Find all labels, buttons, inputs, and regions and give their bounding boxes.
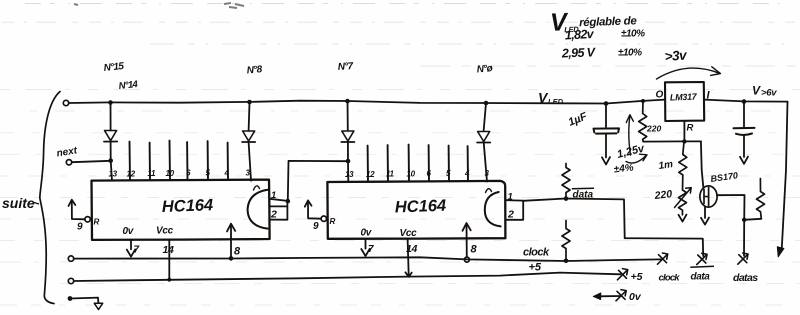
svg-text:HC164: HC164 (395, 197, 447, 217)
wire: U2 pins 1,2 tie (506, 199, 524, 201)
svg-text:2,95 V: 2,95 V (561, 45, 597, 60)
svg-text:14: 14 (163, 244, 175, 256)
terminal: top rail input (63, 100, 68, 105)
svg-text:7: 7 (368, 244, 374, 255)
ground symbol bottom left (94, 303, 102, 309)
wire: U2 top pin stubs (367, 146, 369, 182)
svg-text:>6v: >6v (761, 88, 777, 99)
svg-text:R: R (687, 123, 694, 134)
gate bubble U2 (485, 192, 501, 226)
svg-text:9: 9 (313, 221, 319, 232)
svg-text:0v: 0v (361, 228, 373, 239)
wire: clock rail (74, 257, 661, 261)
transistor Q1 BS170 (700, 186, 717, 207)
svg-text:±10%: ±10% (618, 48, 642, 59)
wire: LM317 adjust pin and bottom rail (683, 121, 685, 141)
svg-text:LM317: LM317 (670, 92, 698, 103)
svg-text:1: 1 (508, 192, 513, 203)
LED D4 (N°0) (477, 103, 490, 181)
svg-text:R: R (94, 218, 100, 227)
svg-text:Vcc: Vcc (400, 228, 418, 239)
label VLED réglable heading (550, 6, 638, 37)
pin 7 ground of U2 (365, 239, 367, 249)
terminal: 0v input with ground (68, 296, 73, 301)
wire: U1 top pin stubs (129, 142, 132, 181)
wire: gate node to R6 (744, 219, 761, 220)
svg-text:4: 4 (224, 169, 230, 178)
wire: Q1 gate lead right and down to data terminal (717, 195, 745, 256)
wire: drain riser to Q1 (701, 141, 703, 187)
node: rail junction dots (108, 99, 645, 106)
IC U1 HC164 body (92, 180, 270, 240)
wire: Q1 source to arrow (704, 206, 706, 218)
svg-text:>3v: >3v (664, 47, 688, 64)
wire: pin13 U1 from LED D1 (111, 161, 112, 181)
svg-text:N°15: N°15 (103, 61, 125, 74)
tick above U1 bubble (254, 186, 260, 190)
svg-text:N°8: N°8 (246, 64, 263, 76)
capacitor C2 output (743, 103, 745, 128)
svg-text:1,82v: 1,82v (564, 27, 595, 43)
svg-text:N°7: N°7 (337, 61, 354, 73)
svg-text:11: 11 (386, 170, 395, 179)
svg-text:±4%: ±4% (613, 162, 634, 175)
svg-text:11: 11 (148, 169, 157, 178)
wire: cascade riser U1 to U2 pin13 line (288, 161, 348, 201)
svg-text:13: 13 (345, 170, 354, 179)
svg-text:1: 1 (271, 190, 276, 201)
svg-text:±10%: ±10% (621, 29, 645, 40)
svg-text:N°14: N°14 (118, 79, 139, 92)
svg-text:12: 12 (366, 170, 375, 179)
svg-text:14: 14 (406, 243, 418, 255)
wire: VLED top rail (69, 100, 665, 104)
svg-text:R: R (330, 217, 336, 226)
resistor R4 1M (679, 142, 687, 186)
svg-text:clock: clock (659, 273, 681, 284)
pin 8 U1 clock arrow (230, 225, 232, 259)
LED D1 (N°15) (104, 103, 117, 161)
IC U2 HC164 body (327, 181, 505, 239)
wire: U1 pins 1,2 tie to cascade node (270, 199, 288, 201)
svg-text:1m: 1m (658, 159, 674, 172)
annotation: >3v curved arrow over LM317 (657, 68, 720, 79)
gate bubble U1 (D shape on right edge) (248, 190, 268, 229)
pin 9 R of U1 (reset, bubble + wire + up arrow) (85, 217, 90, 222)
wire: U2 serial out, right and down to data-bar terminal (523, 199, 703, 257)
wire: +5 rail (74, 273, 621, 281)
annotation: 0v return arrow bottom (600, 295, 622, 297)
svg-text:220: 220 (653, 188, 673, 202)
svg-text:0v: 0v (629, 291, 642, 303)
node: next joins D1 cathode (108, 158, 113, 163)
scan specks top edge (74, 3, 244, 8)
capacitor C1 1uF (605, 104, 607, 127)
resistor R6 (gate stub) (757, 179, 765, 219)
svg-text:13: 13 (109, 170, 118, 179)
svg-text:9: 9 (77, 222, 83, 233)
LED D3 (N°7) (341, 101, 354, 181)
svg-text:2: 2 (507, 209, 514, 221)
terminal: +5 input (68, 278, 73, 283)
svg-text:+5: +5 (529, 262, 542, 274)
terminal: clock input (68, 256, 73, 261)
pin 9 R of U2 (321, 216, 326, 221)
voltage regulator U3 LM317 box (665, 82, 704, 121)
svg-text:LED: LED (548, 97, 564, 106)
resistor R3 220 (adjust top) (639, 101, 647, 141)
svg-text:10: 10 (407, 170, 416, 179)
resistor R1 (data-bar pull, upper) (562, 164, 570, 199)
svg-text:Vcc: Vcc (156, 226, 174, 237)
svg-text:10: 10 (166, 169, 175, 178)
svg-text:2: 2 (270, 209, 277, 221)
svg-text:clock: clock (523, 247, 550, 259)
svg-text:data: data (691, 272, 711, 283)
svg-text:O: O (656, 90, 664, 101)
wire: pin 14 U2 crosses clock to +5 rail (408, 239, 409, 276)
wire: LM317 output to right edge (704, 100, 787, 102)
pin 7 ground of U1 (130, 240, 132, 250)
svg-text:220: 220 (646, 124, 661, 134)
wire: 0v stub (70, 298, 98, 303)
svg-text:N°ø: N°ø (476, 63, 493, 75)
wire: pin 14 U1 to +5 rail (168, 240, 170, 280)
wire: next to D1 cathode node (72, 161, 111, 162)
terminal: next input (66, 160, 71, 165)
svg-text:V: V (752, 84, 761, 98)
resistor R2 (lower stub to clock wire) (562, 221, 570, 261)
svg-text:4: 4 (464, 169, 470, 178)
wire: V>6v down right edge (782, 102, 788, 248)
pin 8 U2 clock arrow with bubble on clock wire (466, 224, 468, 256)
tick above U2 bubble (486, 189, 492, 193)
svg-text:7: 7 (134, 245, 140, 256)
svg-text:0v: 0v (123, 226, 135, 237)
svg-text:+5: +5 (631, 271, 643, 283)
svg-text:12: 12 (127, 170, 136, 179)
LED D2 (N°8) (242, 103, 255, 181)
svg-text:data: data (573, 190, 594, 201)
node: cascade wire joins D3 line (346, 159, 351, 164)
svg-text:HC164: HC164 (162, 196, 214, 216)
svg-text:datas: datas (733, 272, 758, 284)
brace: suite (40, 92, 60, 304)
annotation: 1,25v measure arrows (629, 117, 631, 156)
svg-text:suite: suite (2, 195, 35, 211)
resistor R5 220 variable (679, 186, 687, 215)
